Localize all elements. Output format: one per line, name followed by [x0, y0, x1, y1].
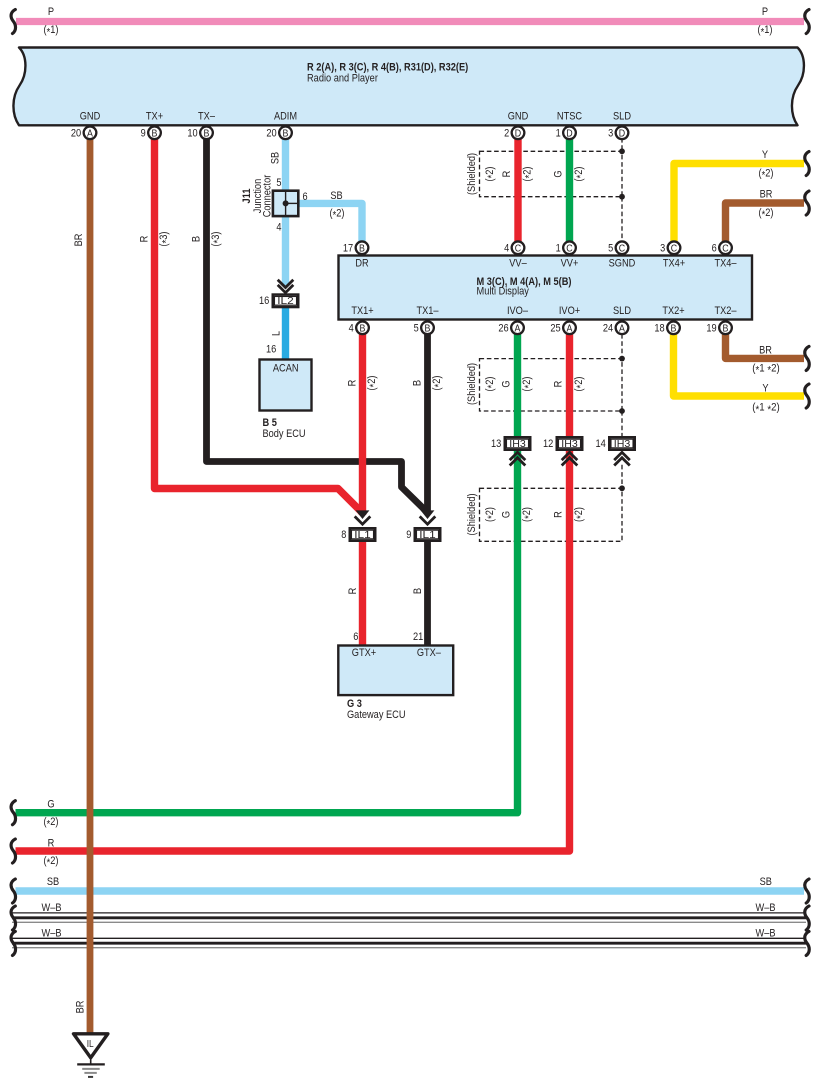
node shield junction dots on SLD line (upper shield box) — [619, 148, 625, 199]
label display pin TX1+ — [351, 305, 373, 317]
label W-B lower right — [756, 928, 776, 940]
svg-text:9: 9 — [406, 529, 411, 541]
svg-text:Radio and Player: Radio and Player — [307, 73, 378, 85]
break symbol right end of BR (*1 *2) wire — [805, 346, 809, 370]
svg-text:C: C — [671, 243, 678, 255]
svg-text:A: A — [87, 128, 93, 140]
label SB left — [47, 876, 59, 888]
svg-text:(*3): (*3) — [158, 232, 172, 247]
pin 4 of J11 — [276, 222, 281, 234]
connector IH3 pin 12 on R wire — [543, 437, 582, 465]
wire BR (*1 *2) from display pin 19(B) TX2- down and right to break — [726, 335, 805, 359]
node shield junction dots on SLD line (middle shield box) — [619, 356, 625, 414]
pin 3(C) TX4+ of display — [660, 241, 680, 254]
svg-text:SB: SB — [47, 876, 59, 888]
svg-text:16: 16 — [259, 295, 269, 307]
pin 17(B) DR of display — [343, 241, 368, 254]
connector IL1 pin 9 on B wire — [406, 510, 440, 541]
svg-text:(*2): (*2) — [521, 507, 535, 522]
svg-text:5: 5 — [414, 323, 419, 335]
pin 25(A) IVO+ of display — [550, 321, 575, 334]
bus wire W-B (upper) — [12, 913, 806, 922]
svg-text:R: R — [347, 380, 359, 387]
connector IH3 pin 14 on SLD line — [596, 437, 635, 465]
svg-text:G: G — [552, 170, 564, 177]
pin 19(B) TX2- of display — [706, 321, 731, 334]
svg-text:25: 25 — [550, 323, 560, 335]
pin 6(C) TX4- of display — [712, 241, 732, 254]
svg-text:TX1–: TX1– — [416, 305, 439, 317]
pin 5(C) SGND of display — [608, 241, 628, 254]
svg-text:IL1: IL1 — [354, 529, 371, 541]
label G3 Gateway ECU — [347, 698, 406, 721]
component B5 Body ECU box with ACAN terminal — [260, 360, 312, 411]
svg-text:R: R — [48, 837, 55, 849]
pin 20(B) ADIM of radio — [266, 126, 291, 139]
bus wire SB across lower area — [16, 887, 805, 895]
svg-text:IVO–: IVO– — [507, 305, 529, 317]
svg-text:16: 16 — [266, 343, 276, 355]
svg-text:17: 17 — [343, 243, 353, 255]
svg-text:W–B: W–B — [756, 902, 776, 914]
wire G (*2) from radio pin 1(D) NTSC to display pin 1(C) VV+ — [552, 139, 587, 242]
break symbol right end of Y (*1 *2) wire — [805, 384, 809, 408]
pin 3(D) SLD of radio — [608, 126, 628, 139]
svg-text:19: 19 — [706, 323, 716, 335]
svg-text:C: C — [515, 243, 522, 255]
svg-text:2: 2 — [504, 128, 509, 140]
svg-text:IL: IL — [87, 1039, 94, 1050]
svg-text:4: 4 — [349, 323, 354, 335]
break symbol left end of R (*2) wire — [11, 839, 15, 863]
svg-text:6: 6 — [303, 191, 308, 203]
svg-text:(*2): (*2) — [44, 816, 59, 830]
svg-text:26: 26 — [498, 323, 508, 335]
label radio pin TX- — [198, 110, 216, 122]
svg-text:B: B — [283, 128, 289, 140]
svg-text:(*2): (*2) — [44, 855, 59, 869]
label display pin DR — [355, 258, 368, 270]
label display pin TX2- — [714, 305, 737, 317]
svg-text:(*1 *2): (*1 *2) — [752, 362, 779, 376]
svg-text:R: R — [347, 588, 359, 595]
svg-text:B: B — [425, 323, 431, 335]
svg-text:20: 20 — [266, 128, 276, 140]
svg-text:12: 12 — [543, 438, 553, 450]
label W-B lower left — [42, 928, 62, 940]
svg-text:3: 3 — [660, 243, 665, 255]
svg-text:1: 1 — [556, 128, 561, 140]
label BR (*1 *2) — [752, 345, 779, 377]
svg-text:5: 5 — [608, 243, 613, 255]
svg-text:(*2): (*2) — [484, 507, 498, 522]
label W-B upper left — [42, 902, 62, 914]
svg-text:(*2): (*2) — [573, 167, 587, 182]
svg-text:SLD: SLD — [613, 305, 631, 317]
svg-text:A: A — [515, 323, 521, 335]
svg-text:B: B — [412, 588, 424, 594]
pin 5(B) TX1- of display — [414, 321, 434, 334]
svg-text:(*1 *2): (*1 *2) — [752, 402, 779, 416]
ground IL symbol at bottom of BR wire — [74, 1034, 108, 1077]
svg-text:VV+: VV+ — [561, 258, 579, 270]
shield box (Shielded)(*2) between Radio and Multi Display — [466, 151, 622, 196]
svg-text:Y: Y — [762, 149, 769, 161]
svg-text:(*1): (*1) — [44, 24, 59, 38]
svg-text:9: 9 — [141, 128, 146, 140]
svg-text:Body ECU: Body ECU — [263, 428, 306, 440]
wire SLD shield drain (dashed) display pin 24(A) down to IH3 — [621, 334, 623, 488]
break symbol left end of upper W-B bus — [11, 906, 15, 930]
svg-text:18: 18 — [654, 323, 664, 335]
svg-text:(*2): (*2) — [521, 167, 535, 182]
svg-text:14: 14 — [596, 438, 606, 450]
break symbol right end of upper W-B bus — [805, 906, 809, 930]
wire R (*2) from display pin 4(B) TX1+ down through IL1 pin 8 to gateway GTX+ — [347, 335, 380, 645]
label SB right — [760, 876, 772, 888]
label display pin SLD — [613, 305, 631, 317]
label display pin IVO- — [507, 305, 529, 317]
wire Y (*2) from display pin 3(C) TX4+ up and right to break — [674, 164, 804, 243]
label radio pin SLD — [613, 110, 631, 122]
svg-text:Multi Display: Multi Display — [477, 286, 530, 298]
svg-text:(*2): (*2) — [366, 376, 380, 391]
svg-text:Y: Y — [762, 382, 769, 394]
svg-text:4: 4 — [276, 222, 281, 234]
break symbol right end of Y (*2) wire — [805, 152, 809, 176]
bus wire W-B (lower) — [12, 938, 806, 947]
pin 20(A) GND of radio — [71, 126, 96, 139]
svg-text:TX+: TX+ — [146, 110, 163, 122]
shield box (Shielded)(*2) below Multi Display IVO lines — [466, 359, 622, 411]
svg-text:BR: BR — [760, 188, 773, 200]
pin 24(A) SLD of display — [603, 321, 628, 334]
svg-text:GTX+: GTX+ — [352, 647, 376, 659]
svg-text:R: R — [552, 381, 564, 388]
pin 6 of gateway GTX+ — [353, 631, 358, 643]
svg-text:GTX–: GTX– — [417, 647, 442, 659]
pin 5 of J11 — [276, 177, 281, 189]
svg-text:C: C — [566, 243, 573, 255]
svg-text:IL1: IL1 — [419, 529, 436, 541]
svg-text:B: B — [360, 323, 366, 335]
svg-text:(*2): (*2) — [573, 377, 587, 392]
svg-text:GND: GND — [80, 110, 101, 122]
svg-text:B: B — [152, 128, 158, 140]
svg-text:R: R — [139, 236, 151, 243]
component R2(A) R3(C) R4(B) R31(D) R32(E) Radio and Player box — [13, 48, 804, 126]
svg-text:BR: BR — [759, 345, 772, 357]
svg-text:IL2: IL2 — [277, 295, 294, 307]
svg-text:20: 20 — [71, 128, 81, 140]
svg-text:IH3: IH3 — [509, 438, 526, 450]
svg-text:G: G — [500, 380, 512, 387]
pin 6 of J11 — [303, 191, 308, 203]
svg-text:SGND: SGND — [609, 258, 636, 270]
label G (*2) at left break — [44, 798, 59, 830]
pin 1(D) NTSC of radio — [556, 126, 576, 139]
svg-text:R: R — [552, 511, 564, 518]
label J11 Junction Connector — [241, 174, 273, 217]
shield box (Shielded)(*2) below IH3 connectors — [466, 488, 622, 541]
svg-text:B: B — [191, 236, 203, 242]
svg-text:TX4+: TX4+ — [663, 258, 685, 270]
svg-text:5: 5 — [276, 177, 281, 189]
component G3 Gateway ECU box — [338, 646, 453, 696]
break symbol left end of lower W-B bus — [11, 931, 15, 955]
svg-text:VV–: VV– — [509, 258, 527, 270]
wire Y (*1 *2) from display pin 18(B) TX2+ down and right to break — [674, 335, 805, 397]
label P (*1) left — [44, 6, 59, 38]
pin 18(B) TX2+ of display — [654, 321, 679, 334]
svg-text:Connector: Connector — [261, 174, 273, 217]
label radio pin NTSC — [557, 110, 582, 122]
svg-text:SB: SB — [330, 190, 342, 202]
pin 1(C) VV+ of display — [556, 241, 576, 254]
svg-text:A: A — [567, 323, 573, 335]
svg-text:ADIM: ADIM — [274, 110, 297, 122]
svg-text:6: 6 — [353, 631, 358, 643]
svg-text:B: B — [671, 323, 677, 335]
svg-text:P: P — [48, 6, 54, 18]
break symbol left end of P bus — [11, 10, 15, 34]
break symbol right end of lower W-B bus — [805, 931, 809, 955]
svg-text:IH3: IH3 — [561, 438, 578, 450]
svg-text:BR: BR — [74, 1001, 86, 1014]
svg-text:TX1+: TX1+ — [351, 305, 373, 317]
svg-text:B: B — [204, 128, 210, 140]
svg-text:SB: SB — [270, 152, 282, 164]
break symbol left end of SB bus — [11, 879, 15, 903]
svg-text:(*2): (*2) — [759, 168, 774, 182]
pin 4(B) TX1+ of display — [349, 321, 369, 334]
svg-text:B: B — [359, 243, 365, 255]
svg-text:(*2): (*2) — [330, 208, 345, 222]
svg-text:8: 8 — [341, 529, 346, 541]
svg-text:C: C — [619, 243, 626, 255]
label W-B upper right — [756, 902, 776, 914]
svg-text:B: B — [412, 380, 424, 386]
svg-text:BR: BR — [73, 234, 85, 247]
svg-text:W–B: W–B — [42, 902, 62, 914]
wire B (*3) from radio pin 10(B) TX- down and right to IL1 pin 9 — [191, 139, 428, 513]
svg-text:D: D — [619, 128, 626, 140]
svg-text:(Shielded): (Shielded) — [466, 363, 478, 405]
label radio pin TX+ — [146, 110, 163, 122]
wire SLD shield drain (dashed) radio pin 3(D) to display pin 5(C) — [621, 138, 623, 242]
wire B (*2) from display pin 5(B) TX1- down through IL1 pin 9 to gateway GTX- — [412, 335, 445, 645]
svg-text:3: 3 — [608, 128, 613, 140]
svg-text:R: R — [501, 171, 513, 178]
svg-text:(*2): (*2) — [484, 167, 498, 182]
pin 9(B) TX+ of radio — [141, 126, 161, 139]
connector IH3 pin 13 on G wire — [491, 437, 530, 465]
label display pin TX4+ — [663, 258, 685, 270]
label Y (*1 *2) — [752, 382, 779, 416]
svg-text:24: 24 — [603, 323, 613, 335]
label BR (*2) — [759, 188, 774, 221]
label display pin VV- — [509, 258, 527, 270]
wire R (*3) from radio pin 9(B) TX+ down and right to IL1 pin 8 — [139, 139, 364, 514]
svg-text:13: 13 — [491, 438, 501, 450]
wire BR (*2) from display pin 6(C) TX4- up and right to break — [726, 203, 805, 242]
label radio pin GND (video) — [508, 110, 529, 122]
wire G (*2) from display pin 26(A) IVO- down through IH3 pin 13 to left break — [16, 335, 536, 813]
label display pin TX4- — [714, 258, 737, 270]
svg-text:W–B: W–B — [756, 928, 776, 940]
svg-text:(*2): (*2) — [431, 376, 445, 391]
label P (*1) right — [758, 6, 773, 38]
svg-text:SLD: SLD — [613, 110, 631, 122]
svg-text:TX4–: TX4– — [714, 258, 737, 270]
connector IL1 pin 8 on R wire — [341, 510, 375, 541]
svg-text:D: D — [566, 128, 573, 140]
wire L from connector IL2 pin 16 down to body ECU ACAN pin 16 — [266, 308, 286, 360]
svg-text:ACAN: ACAN — [273, 363, 299, 375]
svg-text:P: P — [762, 6, 768, 18]
svg-text:A: A — [619, 323, 625, 335]
pin 2(D) GND of radio — [504, 126, 524, 139]
pin 10(B) TX- of radio — [187, 126, 212, 139]
node shield junction dot (lower shield box) — [619, 485, 625, 491]
junction connector J11 — [273, 191, 298, 216]
label R (*2) at left break — [44, 837, 59, 869]
svg-text:(*2): (*2) — [484, 377, 498, 392]
label display pin SGND — [609, 258, 636, 270]
svg-text:G: G — [500, 511, 512, 518]
pin 4(C) VV- of display — [504, 241, 524, 254]
svg-text:G: G — [47, 798, 54, 810]
svg-text:(*2): (*2) — [521, 377, 535, 392]
wire BR from radio pin 20(A) GND down to ground IL — [73, 139, 90, 1034]
svg-text:TX2–: TX2– — [714, 305, 737, 317]
break symbol right end of P bus — [805, 10, 809, 34]
svg-text:L: L — [270, 331, 282, 336]
svg-text:IH3: IH3 — [614, 438, 631, 450]
pin 21 of gateway GTX- — [413, 631, 423, 643]
wire SB (*2) from J11 pin 6 to display pin 17(B) DR — [298, 190, 362, 242]
svg-text:GND: GND — [508, 110, 529, 122]
label display pin IVO+ — [559, 305, 580, 317]
svg-text:(*2): (*2) — [573, 507, 587, 522]
svg-text:4: 4 — [504, 243, 509, 255]
break symbol right end of BR (*2) wire — [805, 191, 809, 215]
connector IL2 pin 16 on SB wire — [259, 280, 298, 308]
svg-text:(*1): (*1) — [758, 24, 773, 38]
svg-text:6: 6 — [712, 243, 717, 255]
component M3(C) M4(A) M5(B) Multi Display box — [339, 256, 753, 320]
svg-text:TX2+: TX2+ — [662, 305, 684, 317]
svg-text:NTSC: NTSC — [557, 110, 582, 122]
label radio pin GND — [80, 110, 101, 122]
break symbol left end of G (*2) wire — [11, 801, 15, 825]
label display pin TX1- — [416, 305, 439, 317]
label Y (*2) — [759, 149, 774, 182]
svg-text:(Shielded): (Shielded) — [466, 493, 478, 535]
break symbol right end of SB bus — [805, 879, 809, 903]
wire SB from radio pin 20(B) ADIM down to junction connector J11 — [270, 139, 286, 286]
svg-text:1: 1 — [556, 243, 561, 255]
svg-text:C: C — [722, 243, 729, 255]
svg-text:B: B — [723, 323, 729, 335]
svg-text:TX–: TX– — [198, 110, 216, 122]
label display pin TX2+ — [662, 305, 684, 317]
label B5 Body ECU — [263, 417, 306, 440]
svg-text:IVO+: IVO+ — [559, 305, 580, 317]
svg-text:21: 21 — [413, 631, 423, 643]
wire R (*2) from radio pin 2(D) GND to display pin 4(C) VV- — [501, 139, 536, 242]
label display pin VV+ — [561, 258, 579, 270]
svg-text:10: 10 — [187, 128, 197, 140]
svg-text:(*3): (*3) — [210, 232, 224, 247]
wire R (*2) from display pin 25(A) IVO+ down through IH3 pin 12 to left break — [16, 335, 588, 852]
svg-text:D: D — [515, 128, 522, 140]
svg-text:(Shielded): (Shielded) — [466, 153, 478, 195]
svg-text:(*2): (*2) — [759, 207, 774, 221]
svg-text:DR: DR — [355, 258, 368, 270]
svg-text:Gateway ECU: Gateway ECU — [347, 709, 406, 721]
svg-text:SB: SB — [760, 876, 772, 888]
label radio pin ADIM — [274, 110, 297, 122]
pin 26(A) IVO- of display — [498, 321, 523, 334]
svg-text:W–B: W–B — [42, 928, 62, 940]
bus wire P (*1) across top — [16, 18, 804, 25]
